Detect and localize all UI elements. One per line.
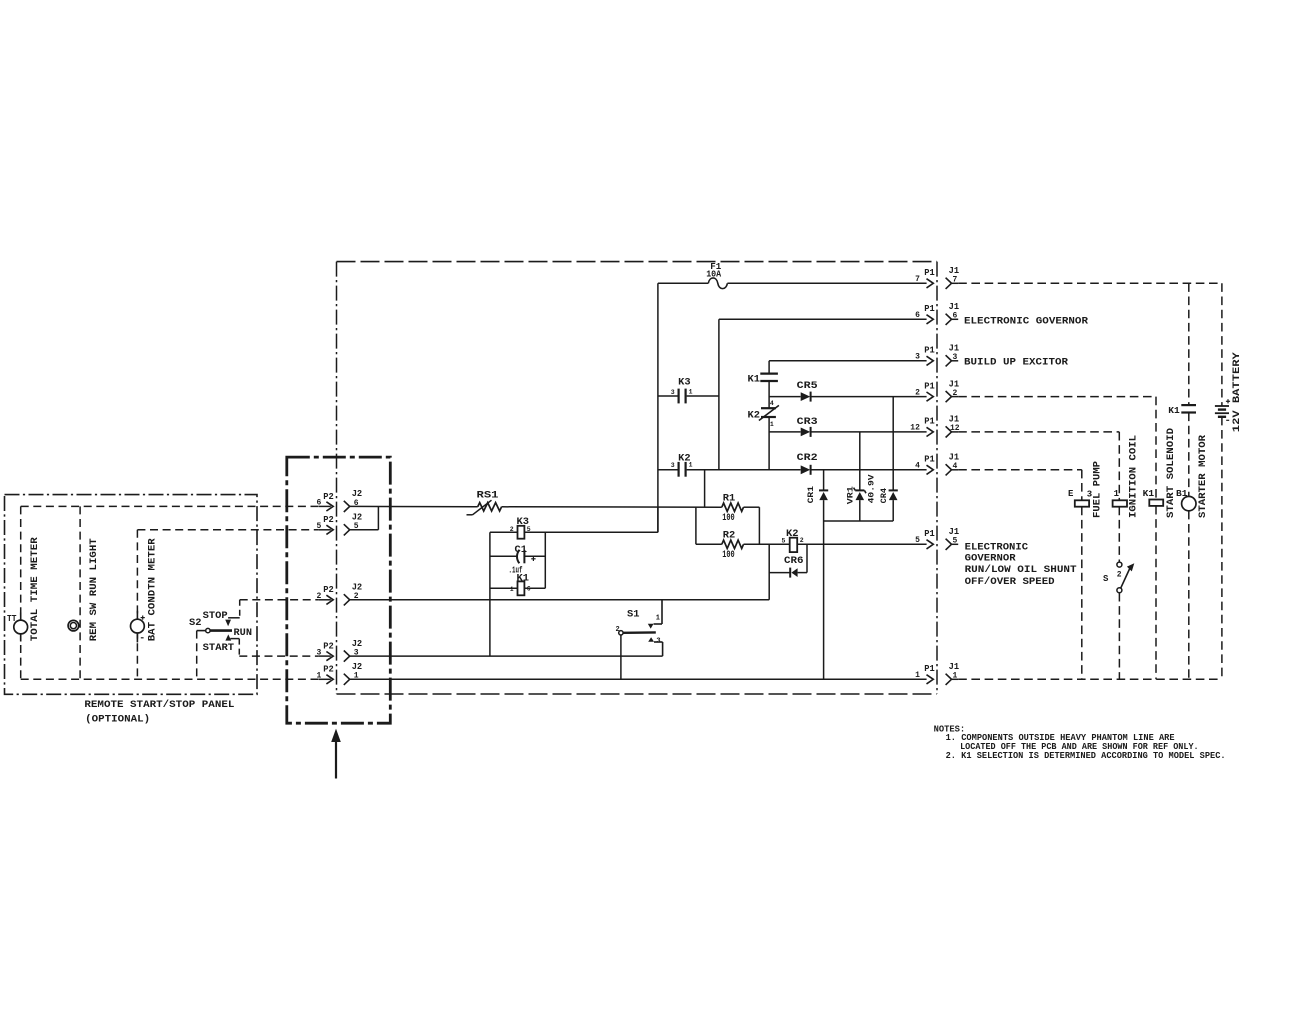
svg-text:START: START	[203, 643, 235, 654]
svg-text:IGNITION COIL: IGNITION COIL	[1128, 435, 1139, 518]
svg-text:VR1: VR1	[846, 486, 856, 504]
panel dashed vertical / BAT meter branch	[136, 530, 138, 680]
relay coil K2	[790, 538, 798, 552]
svg-text:P1: P1	[924, 268, 935, 278]
svg-text:TT: TT	[7, 614, 17, 624]
wire row pin4 with K2 contact and CR2	[658, 469, 678, 471]
svg-text:12: 12	[910, 424, 920, 433]
connector J1 pin 12	[946, 426, 952, 437]
svg-text:P1: P1	[924, 529, 935, 539]
wire row pin5 with R2 and K2 coil	[696, 543, 722, 545]
wire J1-12 to ignition coil	[958, 431, 1119, 433]
indicator lamp REM SW RUN LIGHT	[68, 620, 79, 631]
remote start/stop panel outer phantom box	[5, 495, 258, 695]
diode CR3	[801, 428, 811, 437]
vertical wire R1/R2 left link	[695, 507, 697, 544]
panel dashed vertical / run light branch	[79, 506, 81, 679]
svg-text:1: 1	[317, 672, 322, 681]
starter motor B1	[1188, 413, 1190, 497]
wire row J2-1 / P1-1 common	[350, 678, 927, 680]
capacitor C1 .1uf	[490, 555, 518, 557]
svg-text:J2: J2	[352, 662, 363, 672]
svg-text:P2: P2	[323, 515, 334, 525]
svg-text:10A: 10A	[706, 268, 721, 279]
vertical wire coil block right	[544, 532, 546, 588]
vertical wire R1 right to R2 row	[758, 507, 760, 544]
vertical wire K2 coil right / CR6 right	[806, 544, 808, 572]
svg-text:S: S	[1103, 574, 1109, 584]
svg-text:J2: J2	[352, 513, 363, 523]
connector J1 pin 4	[946, 464, 952, 475]
svg-text:K2: K2	[786, 529, 799, 540]
connector J2 pin 1	[344, 674, 350, 685]
wire BAT box top to P2-5	[137, 529, 318, 531]
svg-text:E: E	[1068, 489, 1074, 499]
connector P1 pin 3	[927, 356, 934, 365]
resistor RS1	[478, 503, 502, 511]
contact K3 (normally open)	[658, 395, 678, 397]
svg-text:2: 2	[915, 388, 920, 397]
svg-text:7: 7	[953, 276, 958, 285]
diode CR1	[823, 470, 825, 491]
wire row pin6	[719, 318, 927, 320]
vertical wire K2 coil left / CR6 left / J2-2 riser	[768, 544, 770, 600]
svg-text:5: 5	[953, 537, 958, 546]
start solenoid	[1149, 500, 1163, 506]
svg-text:3: 3	[317, 648, 322, 657]
wire J1-7 to battery bus	[958, 282, 1222, 284]
svg-text:STARTER MOTOR: STARTER MOTOR	[1198, 435, 1209, 518]
svg-text:REMOTE START/STOP PANEL: REMOTE START/STOP PANEL	[84, 699, 234, 711]
svg-text:2: 2	[510, 526, 514, 533]
arrow pointing at heavy phantom box	[335, 741, 337, 778]
vertical wire coil block left	[489, 532, 491, 656]
heavy phantom box (PCB edge connector region)	[287, 457, 391, 723]
svg-text:CR4: CR4	[879, 488, 889, 504]
diode CR4	[892, 397, 894, 491]
svg-text:P2: P2	[323, 665, 334, 675]
svg-text:CR2: CR2	[797, 453, 818, 464]
contact K2 (normally open)	[677, 462, 679, 477]
wire row pin3	[769, 360, 927, 362]
svg-text:2: 2	[616, 626, 620, 634]
svg-text:K3: K3	[678, 377, 691, 388]
svg-text:2: 2	[1117, 571, 1122, 580]
connector J1 pin 3	[946, 355, 952, 366]
connector P1 pin 12	[927, 427, 934, 436]
connector P1 pin 1	[927, 675, 934, 684]
svg-text:K1: K1	[748, 375, 761, 386]
connector P2 pin 6	[319, 505, 331, 507]
switch S (ignition)	[1118, 507, 1120, 562]
ignition coil	[1113, 500, 1127, 506]
relay coil K3	[518, 526, 525, 539]
connector J1 pin 6	[946, 314, 952, 325]
svg-text:K2: K2	[748, 411, 761, 422]
wire J1-1 common return	[958, 678, 1222, 680]
svg-text:R2: R2	[723, 530, 736, 541]
svg-text:P1: P1	[924, 304, 935, 314]
svg-text:P1: P1	[924, 664, 935, 674]
svg-text:2: 2	[317, 592, 322, 601]
svg-text:6: 6	[915, 311, 920, 320]
connector P2 pin 5	[319, 529, 331, 531]
svg-text:R1: R1	[723, 494, 736, 505]
connector J1 pin 7	[946, 278, 952, 289]
svg-text:P2: P2	[323, 585, 334, 595]
svg-text:6: 6	[953, 312, 958, 321]
vertical wire pin3 / K1 contact / K2 NC contact branch	[768, 361, 770, 374]
svg-text:ELECTRONIC GOVERNOR: ELECTRONIC GOVERNOR	[964, 317, 1088, 328]
wire row J2-2	[350, 599, 770, 601]
contact K2 (normally closed, slashed)	[761, 407, 776, 409]
svg-text:C1: C1	[515, 545, 528, 556]
svg-text:ELECTRONIC: ELECTRONIC	[965, 543, 1029, 554]
svg-text:FUEL PUMP: FUEL PUMP	[1093, 461, 1104, 518]
wire F1 row to P1-7	[658, 282, 708, 284]
wire S1 common down to pin1 row	[620, 635, 622, 679]
svg-text:3: 3	[915, 353, 920, 362]
wire row J2-3	[350, 655, 663, 657]
connector P1 pin 6	[927, 315, 934, 324]
connector P1 pin 7	[927, 279, 934, 288]
svg-text:S2: S2	[189, 618, 202, 629]
meter TT (TOTAL TIME METER)	[20, 613, 22, 621]
connector J1 pin 1	[946, 674, 952, 685]
connector P1 pin 2	[927, 392, 934, 401]
svg-text:K1: K1	[1143, 489, 1155, 499]
S2 common wire down	[196, 631, 198, 680]
svg-text:TOTAL TIME METER: TOTAL TIME METER	[30, 537, 41, 641]
svg-text:1: 1	[656, 615, 660, 623]
connector P1 pin 4	[927, 465, 934, 474]
wire J2-6 to J2-5 link	[377, 506, 379, 529]
wire J1-2 to start solenoid	[958, 396, 1156, 398]
svg-text:3: 3	[953, 353, 958, 362]
connector J2 pin 5	[344, 524, 350, 535]
svg-text:J2: J2	[352, 489, 363, 499]
svg-text:OFF/OVER SPEED: OFF/OVER SPEED	[965, 576, 1055, 588]
vertical wire RS1 row to K3 coil row	[657, 507, 659, 532]
svg-text:P1: P1	[924, 381, 935, 391]
wire row J2-6 / RS1 / R1	[350, 505, 478, 507]
svg-text:2: 2	[800, 537, 804, 544]
svg-text:P1: P1	[924, 455, 935, 465]
svg-text:P1: P1	[924, 417, 935, 427]
wire panel top to P2-6	[21, 505, 319, 507]
svg-text:5: 5	[317, 522, 322, 531]
svg-text:4: 4	[953, 462, 958, 471]
relay coil K1	[490, 587, 517, 589]
svg-text:CR1: CR1	[806, 486, 816, 504]
svg-text:6: 6	[317, 499, 322, 508]
zener diode VR1 40.9V	[859, 432, 861, 491]
svg-text:3: 3	[671, 389, 675, 396]
wire J1-4 to fuel pump	[958, 469, 1082, 471]
svg-text:RUN: RUN	[234, 628, 253, 639]
connector P2 pin 1	[319, 678, 331, 680]
svg-text:START SOLENOID: START SOLENOID	[1166, 428, 1177, 518]
svg-text:S1: S1	[627, 610, 640, 621]
svg-text:2. K1 SELECTION IS DETERMINED: 2. K1 SELECTION IS DETERMINED ACCORDING …	[946, 751, 1226, 761]
svg-text:K1: K1	[517, 573, 530, 584]
svg-text:(OPTIONAL): (OPTIONAL)	[85, 713, 150, 725]
svg-text:1: 1	[689, 462, 693, 469]
svg-text:3: 3	[1087, 490, 1092, 500]
svg-text:6: 6	[527, 585, 531, 592]
svg-text:P2: P2	[323, 642, 334, 652]
diode CR5	[801, 392, 811, 401]
svg-text:2: 2	[953, 389, 958, 398]
svg-text:STOP: STOP	[203, 611, 228, 622]
svg-text:100: 100	[722, 550, 735, 561]
svg-text:P2: P2	[323, 492, 334, 502]
svg-text:RUN/LOW OIL SHUNT: RUN/LOW OIL SHUNT	[965, 564, 1077, 576]
wire row pin2 with CR5	[769, 396, 801, 398]
svg-text:CR5: CR5	[797, 381, 818, 392]
S2 STOP contact arrow	[225, 620, 231, 627]
wire S2 STOP to P2-2	[240, 599, 319, 601]
svg-text:1: 1	[915, 671, 920, 680]
svg-text:RS1: RS1	[477, 491, 499, 502]
svg-text:7: 7	[915, 275, 920, 284]
connector J2 pin 3	[344, 651, 350, 662]
S2 START contact arrow	[225, 634, 231, 640]
svg-text:BUILD UP EXCITOR: BUILD UP EXCITOR	[964, 358, 1068, 369]
svg-text:1: 1	[510, 586, 514, 593]
svg-text:1: 1	[689, 388, 693, 395]
svg-text:1: 1	[953, 672, 958, 681]
resistor R2	[722, 540, 744, 548]
svg-text:4: 4	[915, 462, 920, 471]
svg-text:J2: J2	[352, 639, 363, 649]
panel dashed vertical / TT meter branch	[20, 506, 22, 679]
wire S2 START to P2-3	[239, 655, 318, 657]
fuse F1 10A	[708, 278, 727, 289]
svg-text:K1: K1	[1168, 405, 1180, 416]
wire joining CR1/VR1/CR4 anodes	[824, 520, 894, 522]
contact K1 (starter)	[1188, 283, 1190, 405]
connector P2 pin 3	[319, 655, 331, 657]
wire panel bottom to P2-1	[21, 678, 319, 680]
vertical wire F1 feed (left bus)	[657, 283, 659, 532]
fuel pump	[1075, 500, 1089, 506]
resistor R1	[722, 503, 744, 511]
svg-text:1: 1	[1114, 489, 1120, 499]
contact K1 (normally open)	[760, 373, 778, 375]
svg-text:5: 5	[782, 537, 786, 544]
svg-text:P1: P1	[924, 346, 935, 356]
svg-text:J2: J2	[352, 583, 363, 593]
svg-text:100: 100	[722, 513, 735, 524]
svg-text:BAT CONDTN METER: BAT CONDTN METER	[147, 538, 158, 641]
svg-text:40.9V: 40.9V	[867, 473, 877, 503]
svg-text:5: 5	[527, 526, 531, 533]
connector P1 pin 5	[927, 540, 934, 549]
svg-text:CR3: CR3	[797, 417, 818, 428]
svg-text:1: 1	[770, 421, 774, 428]
svg-text:B1: B1	[1176, 489, 1188, 499]
battery 12V	[1221, 283, 1223, 406]
wire row pin12 with CR3	[769, 431, 801, 433]
svg-text:REM SW RUN LIGHT: REM SW RUN LIGHT	[89, 538, 100, 641]
diode CR6 (flyback across K2 coil)	[769, 572, 790, 574]
svg-text:3: 3	[671, 462, 675, 469]
svg-text:GOVERNOR: GOVERNOR	[965, 554, 1016, 565]
svg-text:12V BATTERY: 12V BATTERY	[1232, 352, 1243, 432]
connector J2 pin 2	[344, 594, 350, 605]
diode CR2	[801, 465, 811, 474]
PCB outline dashed box	[337, 261, 938, 263]
vertical wire pin6 to contacts	[718, 319, 720, 470]
svg-text:4: 4	[770, 400, 774, 407]
vertical wire K2-contact row down to R1 row	[704, 470, 706, 507]
connector J1 pin 5	[946, 539, 952, 550]
connector J2 pin 6	[344, 501, 350, 512]
connector J1 pin 2	[946, 391, 952, 402]
svg-text:CR6: CR6	[784, 556, 804, 567]
wire K3 coil row	[490, 531, 517, 533]
connector P2 pin 2	[319, 599, 331, 601]
svg-text:5: 5	[915, 536, 920, 545]
meter BAT CONDTN METER	[136, 611, 138, 619]
